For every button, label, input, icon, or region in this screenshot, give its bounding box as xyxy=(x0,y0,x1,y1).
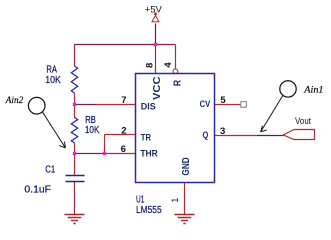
svg-text:C1: C1 xyxy=(45,164,55,175)
svg-text:7: 7 xyxy=(121,95,126,106)
svg-text:Ain2: Ain2 xyxy=(5,95,24,105)
svg-text:10K: 10K xyxy=(85,125,100,136)
svg-text:10K: 10K xyxy=(45,75,61,86)
svg-text:VCC: VCC xyxy=(152,77,163,101)
svg-text:4: 4 xyxy=(163,62,174,68)
svg-text:3: 3 xyxy=(220,126,225,137)
svg-text:8: 8 xyxy=(145,63,156,68)
svg-text:1: 1 xyxy=(170,198,180,203)
svg-text:THR: THR xyxy=(140,149,158,159)
svg-text:+5V: +5V xyxy=(145,4,163,15)
svg-text:DIS: DIS xyxy=(141,102,156,112)
svg-text:2: 2 xyxy=(121,125,126,136)
svg-text:LM555: LM555 xyxy=(136,205,162,216)
svg-text:TR: TR xyxy=(141,133,151,143)
svg-text:CV: CV xyxy=(200,99,211,109)
svg-text:RA: RA xyxy=(46,64,57,75)
svg-text:GND: GND xyxy=(181,157,192,175)
svg-text:Vout: Vout xyxy=(295,116,311,126)
svg-text:0.1uF: 0.1uF xyxy=(24,185,51,196)
svg-text:6: 6 xyxy=(121,144,126,155)
svg-text:Q: Q xyxy=(203,130,209,140)
svg-text:5: 5 xyxy=(220,95,226,106)
svg-text:Ain1: Ain1 xyxy=(303,85,323,95)
svg-text:R: R xyxy=(172,79,183,86)
